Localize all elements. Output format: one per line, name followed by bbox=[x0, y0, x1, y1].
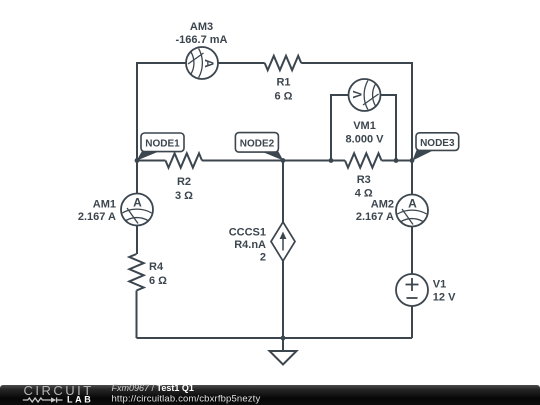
svg-text:Fxm0967 / Test1 Q1: Fxm0967 / Test1 Q1 bbox=[112, 383, 194, 393]
svg-text:6 Ω: 6 Ω bbox=[149, 275, 167, 287]
svg-text:http://circuitlab.com/cbxrfbp5: http://circuitlab.com/cbxrfbp5nezty bbox=[112, 393, 261, 404]
svg-text:R2: R2 bbox=[177, 176, 191, 188]
svg-text:A: A bbox=[202, 59, 216, 68]
svg-text:3 Ω: 3 Ω bbox=[175, 190, 193, 202]
svg-text:R4.nA: R4.nA bbox=[234, 239, 266, 251]
svg-text:NODE1: NODE1 bbox=[145, 139, 180, 150]
svg-text:NODE3: NODE3 bbox=[420, 138, 455, 149]
svg-text:6 Ω: 6 Ω bbox=[275, 91, 293, 103]
svg-text:A: A bbox=[408, 197, 417, 211]
svg-text:NODE2: NODE2 bbox=[240, 139, 275, 150]
svg-text:VM1: VM1 bbox=[353, 120, 376, 132]
svg-text:LAB: LAB bbox=[67, 395, 93, 405]
svg-text:V1: V1 bbox=[433, 278, 446, 290]
svg-text:AM1: AM1 bbox=[93, 199, 116, 211]
svg-text:8.000 V: 8.000 V bbox=[346, 134, 385, 146]
svg-text:R3: R3 bbox=[357, 174, 371, 186]
svg-text:R4: R4 bbox=[149, 261, 164, 273]
svg-text:2.167 A: 2.167 A bbox=[78, 211, 116, 223]
svg-text:2.167 A: 2.167 A bbox=[356, 211, 394, 223]
svg-text:CCCS1: CCCS1 bbox=[229, 227, 266, 239]
svg-text:R1: R1 bbox=[276, 77, 290, 89]
svg-text:12 V: 12 V bbox=[433, 291, 456, 303]
svg-text:A: A bbox=[133, 196, 142, 210]
svg-text:AM3: AM3 bbox=[190, 21, 213, 33]
svg-text:AM2: AM2 bbox=[371, 199, 394, 211]
svg-text:2: 2 bbox=[260, 252, 266, 264]
svg-text:V: V bbox=[351, 90, 365, 98]
svg-text:4 Ω: 4 Ω bbox=[355, 187, 373, 199]
svg-text:-166.7 mA: -166.7 mA bbox=[176, 34, 228, 46]
